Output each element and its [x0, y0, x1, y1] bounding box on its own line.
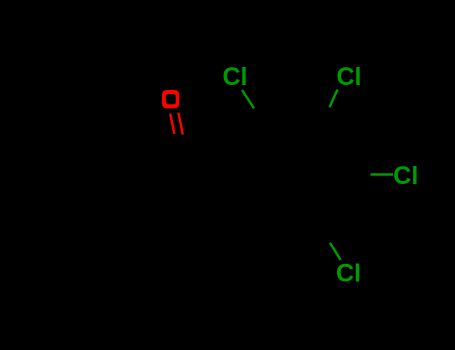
bond phenyl to carbonyl C [131, 163, 186, 169]
carbonyl C=O double bond (black half near C) [174, 134, 187, 155]
bond carbonyl C to tetrachlorophenyl ring [186, 169, 239, 176]
bond ring to Cl4 green half [330, 243, 341, 260]
bond ring to Cl2 green half [330, 90, 338, 108]
svg-text:Cl: Cl [336, 260, 361, 288]
svg-text:Cl: Cl [393, 162, 418, 190]
bond ring to Cl3 green half [371, 173, 394, 175]
svg-text:Cl: Cl [223, 63, 248, 91]
carbonyl C=O double bond (red half near O) [170, 113, 183, 135]
phenyl inner double bonds [59, 165, 146, 250]
bond ring to Cl3 black half [348, 174, 371, 176]
tetrachlorophenyl ring (black, invisible) [239, 124, 348, 227]
bond ring to Cl2 black half [321, 107, 330, 124]
ring inner double bonds [248, 132, 339, 219]
bond ring to Cl1 green half [242, 90, 254, 108]
bond ring to Cl4 black half [319, 226, 330, 243]
atom O [162, 90, 179, 108]
bond ring to Cl1 black half [254, 108, 266, 126]
svg-text:Cl: Cl [337, 63, 362, 91]
phenyl ring (black, invisible on black bg) [43, 156, 153, 259]
